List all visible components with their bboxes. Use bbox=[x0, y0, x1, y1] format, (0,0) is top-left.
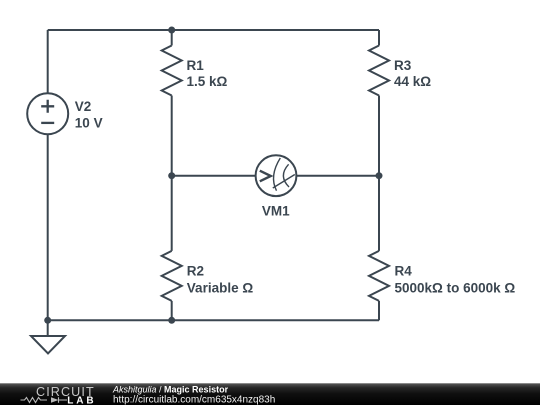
svg-text:44 kΩ: 44 kΩ bbox=[394, 74, 431, 89]
ground symbol bbox=[31, 336, 65, 354]
resistor R3 bbox=[369, 46, 389, 96]
junction dot top of middle branch bbox=[168, 27, 175, 34]
voltmeter VM1 body bbox=[256, 155, 297, 196]
junction dot bottom left node bbox=[44, 317, 51, 324]
svg-text:Akshitgulia / Magic Resistor: Akshitgulia / Magic Resistor bbox=[112, 385, 229, 395]
junction dot center node bbox=[168, 172, 175, 179]
junction dot right node bbox=[376, 172, 383, 179]
wire left branch lower (V2 to bottom rail) bbox=[47, 134, 49, 320]
wire top rail from left branch to right branch bbox=[48, 29, 379, 31]
resistor R2 bbox=[162, 251, 182, 301]
svg-text:LAB: LAB bbox=[67, 396, 96, 405]
svg-text:http://circuitlab.com/cm635x4n: http://circuitlab.com/cm635x4nzq83h bbox=[113, 394, 275, 405]
VM1 chevron bbox=[260, 171, 271, 182]
svg-text:Variable Ω: Variable Ω bbox=[187, 280, 254, 295]
VM1 needle bbox=[273, 175, 295, 189]
wire middle branch upper lead to R1 bbox=[171, 30, 173, 46]
wire right branch between right node and R4 bbox=[378, 176, 380, 251]
V2 plus sign bbox=[41, 100, 54, 113]
footer logo resistor-diode squiggle bbox=[21, 398, 48, 403]
svg-text:VM1: VM1 bbox=[262, 203, 290, 218]
wire VM1 right terminal to right node bbox=[296, 175, 379, 177]
resistor R4 bbox=[369, 251, 389, 301]
wire right branch upper lead to R3 bbox=[378, 30, 380, 46]
wire middle branch lower lead to bottom rail bbox=[171, 301, 173, 320]
junction dot bottom of middle branch bbox=[168, 317, 175, 324]
svg-text:10 V: 10 V bbox=[75, 116, 103, 131]
wire middle branch between center node and R2 bbox=[171, 176, 173, 251]
V2 minus sign bbox=[41, 122, 54, 124]
wire center node to VM1 left terminal bbox=[172, 175, 256, 177]
wire right branch lower lead to bottom rail bbox=[378, 301, 380, 320]
footer bar bbox=[0, 383, 540, 384]
svg-text:V2: V2 bbox=[75, 99, 92, 114]
wire middle branch between R1 and center node bbox=[171, 96, 173, 176]
svg-text:R4: R4 bbox=[395, 264, 413, 279]
svg-text:R2: R2 bbox=[187, 264, 204, 279]
ground stem bbox=[47, 320, 49, 336]
svg-text:5000kΩ to 6000k Ω: 5000kΩ to 6000k Ω bbox=[395, 280, 516, 295]
resistor R1 bbox=[162, 46, 182, 96]
voltage source V2 body bbox=[27, 93, 68, 134]
svg-text:1.5 kΩ: 1.5 kΩ bbox=[187, 74, 228, 89]
wire bottom rail bbox=[48, 319, 379, 321]
wire right branch between R3 and right node bbox=[378, 96, 380, 176]
wire left branch upper (top rail to V2) bbox=[47, 30, 49, 93]
svg-text:R1: R1 bbox=[187, 58, 205, 73]
svg-text:R3: R3 bbox=[394, 58, 412, 73]
VM1 meter scale arc inner bbox=[283, 164, 289, 187]
VM1 meter scale arc outer bbox=[274, 158, 281, 191]
